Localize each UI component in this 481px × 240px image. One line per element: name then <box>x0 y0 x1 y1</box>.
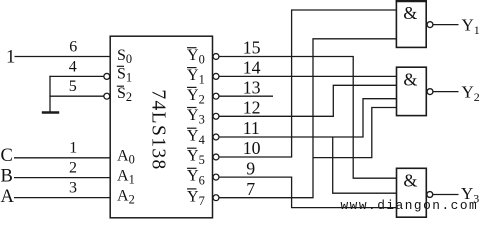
gate U2 output bubble <box>427 89 433 95</box>
svg-text:13: 13 <box>243 77 261 97</box>
wire A to A2 <box>14 197 110 199</box>
svg-text:1: 1 <box>69 140 77 157</box>
svg-text:&: & <box>403 3 417 23</box>
svg-text:&: & <box>403 69 417 89</box>
svg-text:10: 10 <box>243 138 261 158</box>
svg-text:9: 9 <box>246 158 255 178</box>
svg-text:7: 7 <box>246 179 255 199</box>
pin label Y1 (active low) <box>187 67 205 87</box>
pin label Y6 (active low) <box>187 168 205 188</box>
decoder U1 74LS138 body <box>110 36 212 218</box>
svg-text:15: 15 <box>243 38 261 58</box>
svg-text:14: 14 <box>243 58 261 78</box>
gate U1 output bubble <box>427 22 433 28</box>
wire U2 output to Y2 <box>433 91 458 93</box>
svg-text:6: 6 <box>69 38 77 55</box>
svg-text:1: 1 <box>6 48 15 68</box>
wire Y4 pin 11 to gate U2 input 3 <box>219 99 396 137</box>
wire input 1 to S0 <box>15 56 111 58</box>
svg-text:74LS138: 74LS138 <box>148 89 169 170</box>
pin label Y5 (active low) <box>187 148 205 168</box>
output bubble pin 11 <box>213 134 219 140</box>
output bubble pin 10 <box>213 154 219 160</box>
wire Y3 pin 12 to gate U2 input 2 <box>219 85 396 116</box>
wire Y5 pin 10 to gate U1 input 1 <box>219 10 396 157</box>
nand gate U1 body <box>396 1 427 47</box>
wire U1 output to Y1 <box>433 24 458 26</box>
wire Y1 pin 14 to gate U2 input 1 <box>219 75 396 77</box>
wire pin 5 <box>49 95 103 97</box>
wire Y6 pin 9 to gate U3 input 3 <box>219 177 396 208</box>
input bubble pin 4 <box>104 73 110 79</box>
wire to ground <box>49 76 51 113</box>
nand gate U2 body <box>397 67 427 115</box>
svg-text:2: 2 <box>69 159 77 176</box>
svg-text:B: B <box>1 167 13 187</box>
svg-text:&: & <box>403 171 417 191</box>
wire U3 output to Y3 <box>433 194 458 196</box>
pin label S2 (active low) <box>117 85 132 104</box>
wire Y7 pin 7 to gate U1 input 2 <box>219 39 396 198</box>
wire C to A0 <box>14 157 110 159</box>
ground <box>42 111 59 113</box>
pin label S1 (active low) <box>117 65 132 84</box>
pin label A1 <box>117 167 135 186</box>
svg-text:4: 4 <box>69 58 77 75</box>
svg-text:A: A <box>1 187 15 207</box>
output bubble pin 12 <box>213 113 219 119</box>
gate U3 output bubble <box>427 192 433 198</box>
output bubble pin 15 <box>213 54 219 60</box>
wire Y0 pin 15 to gate U3 input 1 <box>219 57 396 179</box>
pin label A0 <box>117 148 135 167</box>
svg-text:5: 5 <box>69 78 77 95</box>
input bubble pin 5 <box>104 93 110 99</box>
wire Y2 pin 13 stub <box>219 95 273 97</box>
pin label S0 <box>117 47 132 66</box>
output bubble pin 9 <box>213 174 219 180</box>
nand gate U3 body <box>397 168 427 217</box>
svg-text:11: 11 <box>243 118 260 138</box>
output bubble pin 14 <box>213 73 219 79</box>
svg-text:www.diangon.com: www.diangon.com <box>341 198 479 213</box>
pin label Y3 (active low) <box>187 107 205 127</box>
svg-text:3: 3 <box>69 179 77 196</box>
output bubble pin 13 <box>213 93 219 99</box>
wire branch Y4 to gate U3 input 2 <box>333 137 397 193</box>
wire pin 4 <box>49 75 103 77</box>
pin label A2 <box>117 187 135 206</box>
pin label Y2 (active low) <box>187 87 205 107</box>
output bubble pin 7 <box>213 195 219 201</box>
pin label Y4 (active low) <box>187 128 205 148</box>
wire B to A1 <box>14 177 110 179</box>
svg-text:12: 12 <box>243 98 261 118</box>
wire branch Y7 to gate U2 input 4 <box>313 108 397 158</box>
svg-text:C: C <box>1 146 13 166</box>
pin label Y0 (active low) <box>187 47 205 67</box>
pin label Y7 (active low) <box>187 188 205 208</box>
